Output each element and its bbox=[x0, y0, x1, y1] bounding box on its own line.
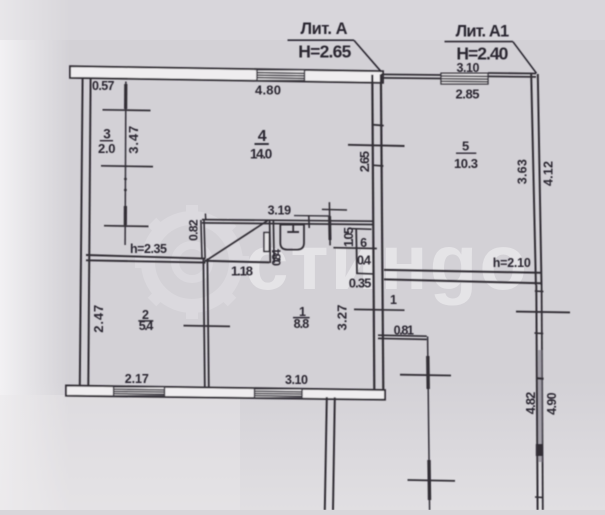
terrace right wall bbox=[536, 285, 537, 510]
svg-text:2.0: 2.0 bbox=[98, 141, 116, 156]
closet 6 left wall bbox=[355, 229, 358, 274]
svg-text:3.63: 3.63 bbox=[516, 159, 530, 184]
tick 2.65 dimension bbox=[348, 145, 405, 146]
svg-text:3.10: 3.10 bbox=[457, 61, 480, 75]
dim line 1.05 bbox=[328, 202, 331, 245]
main shared wall (right wall of left building) bbox=[372, 75, 374, 391]
svg-text:3.27: 3.27 bbox=[334, 305, 349, 331]
leader A1 bbox=[513, 42, 537, 74]
svg-text:4.12: 4.12 bbox=[541, 161, 555, 186]
svg-text:1: 1 bbox=[390, 293, 397, 307]
svg-text:Н=2.65: Н=2.65 bbox=[298, 41, 351, 61]
top wall bbox=[381, 73, 441, 76]
svg-text:10.3: 10.3 bbox=[454, 156, 478, 171]
svg-text:4: 4 bbox=[258, 128, 267, 145]
left exterior wall bbox=[80, 77, 83, 386]
step wall 0.81 bbox=[378, 335, 427, 336]
svg-text:1.05: 1.05 bbox=[342, 227, 356, 247]
rung on main wall bbox=[372, 125, 384, 126]
svg-text:3.47: 3.47 bbox=[126, 126, 141, 154]
svg-text:8.8: 8.8 bbox=[294, 317, 310, 331]
top wall bar bbox=[70, 66, 383, 83]
window right building top bbox=[441, 73, 488, 84]
wall h=2.35 bbox=[86, 255, 206, 259]
window top (4.80 wall) bbox=[257, 70, 305, 81]
svg-text:0.81: 0.81 bbox=[394, 324, 414, 338]
svg-text:0.57: 0.57 bbox=[92, 79, 115, 93]
svg-text:2.17: 2.17 bbox=[125, 372, 149, 386]
dim line 3.47 (room 3) bbox=[124, 82, 127, 246]
right building bottom wall bbox=[384, 270, 541, 273]
svg-text:14.0: 14.0 bbox=[250, 147, 272, 162]
svg-text:4.80: 4.80 bbox=[255, 82, 281, 97]
dim line 3.19 segment bbox=[294, 215, 330, 217]
svg-text:5.4: 5.4 bbox=[139, 319, 154, 333]
door swing diagonal bbox=[206, 220, 268, 261]
hall left vertical wall (0.82) bbox=[201, 220, 202, 259]
leader A bbox=[354, 40, 381, 71]
tick under 6 bbox=[333, 247, 376, 250]
partition between rooms 1 and 2 bbox=[203, 259, 204, 387]
window bottom-left (2.17) bbox=[114, 387, 165, 396]
hall top wall double line bbox=[202, 220, 373, 222]
svg-text:2.85: 2.85 bbox=[456, 86, 480, 101]
svg-text:4.90: 4.90 bbox=[545, 392, 559, 414]
svg-text:Лит. А: Лит. А bbox=[301, 20, 348, 38]
terrace left wall bbox=[325, 397, 327, 510]
yard dimension line bbox=[428, 337, 430, 511]
watermark logo gear bbox=[135, 205, 249, 319]
hall top ticks bbox=[204, 214, 206, 221]
right building right wall bbox=[531, 74, 536, 285]
svg-text:5: 5 bbox=[462, 138, 469, 153]
svg-text:0.84: 0.84 bbox=[270, 249, 284, 266]
svg-text:0.4: 0.4 bbox=[357, 254, 371, 268]
svg-text:h=2.10: h=2.10 bbox=[493, 256, 531, 270]
door jamb rect bbox=[264, 233, 269, 252]
svg-text:4.82: 4.82 bbox=[524, 392, 538, 414]
tick rooms 1/2 bbox=[184, 325, 231, 328]
tick right of wall (1) bbox=[354, 308, 405, 311]
bathroom left wall bbox=[269, 221, 272, 264]
svg-text:h=2.35: h=2.35 bbox=[130, 242, 167, 256]
svg-text:2.65: 2.65 bbox=[358, 151, 372, 172]
svg-text:2.47: 2.47 bbox=[91, 305, 106, 333]
bottom wall bar bbox=[66, 386, 385, 400]
rung on main wall lower bbox=[373, 164, 384, 167]
svg-text:6: 6 bbox=[360, 236, 367, 250]
svg-text:3.10: 3.10 bbox=[285, 373, 308, 387]
svg-text:3.19: 3.19 bbox=[268, 203, 292, 217]
tick 4.82/4.90 bbox=[516, 311, 570, 314]
svg-text:0.35: 0.35 bbox=[349, 276, 372, 291]
toilet bbox=[280, 225, 304, 250]
svg-text:0.82: 0.82 bbox=[186, 219, 200, 241]
rungs on right wall bbox=[535, 290, 544, 293]
hall bottom segment bbox=[205, 261, 270, 263]
window bottom-right (3.10) bbox=[255, 389, 303, 398]
svg-text:Лит. А1: Лит. А1 bbox=[456, 22, 510, 40]
closet 6 top bbox=[352, 228, 372, 231]
svg-text:1.18: 1.18 bbox=[231, 263, 253, 278]
svg-text:3: 3 bbox=[103, 126, 111, 141]
closet 6 bottom bbox=[356, 272, 374, 275]
